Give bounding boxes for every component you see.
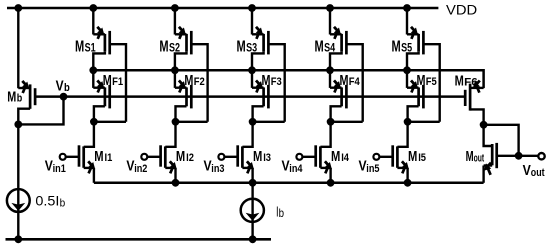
terminal circle Vin1 (60, 154, 66, 160)
dot diode-rail junction column 2 (171, 66, 179, 74)
svg-text:V: V (56, 78, 64, 95)
wire MS4 drain (330, 52, 342, 71)
transistor MS5 gate bar (422, 31, 425, 55)
svg-text:M: M (455, 73, 464, 90)
svg-text:b: b (279, 206, 285, 220)
wire MS1 gate lead to diode connection (110, 44, 126, 122)
dot diode-rail junction column 1 (89, 66, 97, 74)
wire MI4 source (320, 168, 330, 183)
transistor Mout source arrow (484, 163, 491, 175)
wire MI5 source (397, 168, 407, 183)
svg-text:M: M (392, 38, 401, 55)
transistor Mb channel bar (29, 84, 32, 108)
label Vb (56, 78, 70, 95)
transistor MI1 gate bar (78, 145, 81, 166)
transistor MI2 gate bar (159, 145, 162, 166)
svg-text:M: M (408, 148, 417, 165)
svg-text:I4: I4 (341, 152, 350, 164)
svg-text:M: M (103, 72, 112, 89)
wire Mout source (484, 166, 493, 183)
transistor MS3 source arrow (256, 27, 263, 39)
wire Mb source from VDD (18, 8, 29, 88)
transistor MI1 source arrow (88, 161, 95, 173)
transistor MS2 source arrow (179, 27, 186, 39)
transistor MF3 source arrow (256, 80, 263, 92)
wire MI1 gate lead (66, 156, 79, 158)
wire MI1 source (84, 168, 94, 183)
transistor MF5 gate bar (422, 85, 425, 109)
transistor MF5 channel bar (417, 87, 420, 106)
label MF4 (340, 72, 361, 89)
label MI5 (408, 148, 426, 165)
wire Ib to ground (251, 183, 253, 240)
label Vin3 (204, 157, 225, 175)
transistor MS4 channel bar (340, 34, 343, 52)
svg-text:V: V (523, 162, 531, 179)
transistor MS4 source arrow (334, 27, 341, 39)
svg-text:F5: F5 (426, 76, 437, 88)
terminal circle Vin2 (141, 154, 147, 160)
power rail VDD (7, 7, 438, 10)
label Mb (7, 89, 22, 106)
dot diode-rail junction column 5 (403, 66, 411, 74)
wire internal node to MS2 gate (176, 121, 208, 123)
dot VDD junction column 3 (248, 4, 256, 12)
transistor MF2 gate bar (190, 85, 193, 109)
svg-text:I1: I1 (105, 152, 113, 164)
transistor MF3 gate bar (267, 85, 270, 109)
node dot Vout (515, 152, 523, 160)
wire Mb drain (18, 109, 30, 125)
wire MF6 source from diode rail (470, 87, 484, 89)
common source rail of input pairs (94, 182, 484, 185)
svg-text:F4: F4 (349, 76, 361, 88)
label Vin2 (126, 157, 147, 175)
svg-text:M: M (159, 38, 168, 55)
wire internal node to MS5 gate (408, 121, 440, 123)
label MF5 (417, 72, 437, 89)
wire output node top link (484, 125, 519, 156)
svg-text:I5: I5 (418, 152, 426, 164)
transistor Mout gate bar (495, 143, 498, 168)
dot source-rail junction column 4 (327, 179, 335, 187)
label MI2 (176, 148, 194, 165)
dot source-rail junction column 3 (249, 179, 257, 187)
dot VDD junction column 1 (89, 4, 97, 12)
node dot internal node column 5 (404, 118, 412, 126)
svg-text:F1: F1 (112, 76, 123, 88)
terminal circle Vin4 (296, 154, 302, 160)
label 0.5Ib (35, 193, 65, 210)
svg-text:M: M (176, 148, 185, 165)
transistor MI5 gate bar (391, 145, 394, 166)
transistor MF6 channel bar (469, 84, 472, 111)
svg-text:M: M (331, 148, 340, 165)
transistor MF3 channel bar (262, 87, 265, 106)
transistor MI2 source arrow (170, 161, 177, 173)
wire MI4 gate lead (303, 156, 316, 158)
node dot output branch (480, 121, 488, 129)
dot diode-rail junction column 3 (248, 66, 256, 74)
wire MS4 gate lead to diode connection (346, 44, 362, 122)
dot ground-Ib junction (249, 235, 257, 243)
svg-text:b: b (64, 82, 70, 94)
svg-text:M: M (253, 148, 262, 165)
svg-text:M: M (340, 72, 349, 89)
transistor MS3 gate bar (267, 31, 270, 55)
svg-text:M: M (466, 148, 474, 165)
wire MF6 drain (470, 109, 484, 124)
svg-text:M: M (237, 38, 246, 55)
label MS2 (159, 38, 180, 55)
dot VDD junction column 5 (403, 4, 411, 12)
wire internal node to MS4 gate (331, 121, 363, 123)
svg-text:in1: in1 (53, 163, 66, 175)
node dot Mb drain / Vb / tail (14, 121, 22, 129)
wire MS5 drain (407, 52, 419, 71)
wire MF1 source (93, 70, 105, 88)
dot source-rail junction column 5 (404, 179, 412, 187)
label Vin1 (45, 157, 66, 175)
svg-text:b: b (60, 197, 66, 209)
transistor MI3 gate bar (236, 145, 239, 166)
current source Ib arrow (246, 213, 260, 221)
svg-text:M: M (94, 148, 103, 165)
label MF2 (184, 72, 204, 89)
svg-text:VDD: VDD (446, 2, 477, 18)
dot VDD-Mb junction (14, 4, 22, 12)
wire MF2 drain (176, 106, 187, 122)
svg-text:F6: F6 (464, 77, 478, 89)
transistor MF2 source arrow (179, 80, 186, 92)
wire MI2 gate lead (148, 156, 161, 158)
transistor MS4 gate bar (345, 31, 348, 55)
node dot internal node column 2 (172, 118, 180, 126)
node dot Vb (60, 93, 68, 101)
svg-text:I2: I2 (186, 152, 194, 164)
wire MS5 source from VDD (407, 8, 419, 35)
wire Mout gate lead (497, 155, 538, 157)
svg-text:I3: I3 (263, 152, 271, 164)
wire MI4 drain riser (320, 122, 330, 147)
wire MI1 drain riser (84, 122, 94, 147)
terminal circle Vout (538, 153, 544, 159)
wire internal node to MS1 gate (94, 121, 126, 123)
label MS4 (315, 38, 336, 55)
transistor MS5 source arrow (411, 27, 418, 39)
transistor MF1 gate bar (108, 85, 111, 109)
wire MS1 drain (93, 52, 105, 71)
terminal circle Vin5 (373, 154, 379, 160)
wire MI5 drain riser (397, 122, 407, 147)
wire MF1 drain (94, 106, 105, 122)
transistor MI5 source arrow (402, 161, 409, 173)
transistor MF5 source arrow (411, 80, 418, 92)
wire MF4 source (330, 70, 342, 88)
svg-text:M: M (315, 38, 324, 55)
label Vin4 (282, 157, 304, 175)
wire MS1 source from VDD (93, 8, 105, 35)
svg-text:0.5I: 0.5I (35, 193, 59, 209)
wire MF2 source (175, 70, 187, 88)
wire tail to current source (17, 124, 19, 239)
label MI1 (94, 148, 112, 165)
svg-text:F3: F3 (271, 76, 282, 88)
label Ib (276, 204, 284, 221)
wire MI3 gate lead (225, 156, 238, 158)
transistor MF2 channel bar (185, 87, 188, 106)
wire MI2 drain riser (165, 122, 175, 147)
label Vout (523, 162, 545, 179)
transistor MF1 channel bar (104, 87, 107, 106)
wire MI3 source (242, 168, 252, 183)
transistor Mout channel bar (491, 144, 494, 165)
wire MS2 gate lead to diode connection (191, 44, 207, 122)
svg-text:in5: in5 (366, 163, 379, 175)
svg-text:M: M (262, 72, 271, 89)
svg-text:out: out (474, 152, 485, 164)
bias rail Vb (gate line) (35, 95, 465, 98)
dot VDD junction column 2 (171, 4, 179, 12)
label MI4 (331, 148, 350, 165)
svg-text:in4: in4 (289, 163, 303, 175)
label MF1 (103, 72, 123, 89)
transistor MF4 gate bar (345, 85, 348, 109)
ground rail (6, 238, 272, 241)
wire MF3 drain (253, 106, 264, 122)
transistor Mb gate bar (34, 88, 37, 105)
label MS5 (392, 38, 413, 55)
node dot internal node column 4 (327, 118, 335, 126)
transistor MI4 source arrow (325, 161, 332, 173)
transistor MI1 channel bar (82, 146, 85, 167)
current source 0.5Ib arrow (11, 203, 25, 211)
svg-text:M: M (184, 72, 193, 89)
node dot internal node column 1 (90, 118, 98, 126)
svg-text:M: M (417, 72, 426, 89)
transistor MI4 gate bar (314, 145, 317, 166)
transistor MI5 channel bar (396, 146, 399, 167)
wire Vb node down-left (18, 97, 63, 125)
label MS1 (75, 38, 96, 55)
wire MI5 gate lead (380, 156, 393, 158)
label MI3 (253, 148, 271, 165)
wire MS3 source from VDD (252, 8, 264, 35)
wire MS3 gate lead to diode connection (268, 44, 284, 122)
wire MI2 source (165, 168, 175, 183)
transistor MI3 channel bar (241, 146, 244, 167)
transistor MF6 source arrow (473, 81, 480, 93)
transistor MI4 channel bar (319, 146, 322, 167)
svg-text:M: M (75, 38, 84, 55)
label Vin5 (359, 157, 380, 175)
current source 0.5Ib circle (7, 189, 30, 212)
transistor MS2 gate bar (190, 31, 193, 55)
transistor MS1 channel bar (104, 34, 107, 52)
svg-text:in3: in3 (211, 163, 224, 175)
transistor MS5 channel bar (417, 34, 420, 52)
transistor Mb source arrow (22, 81, 29, 93)
node dot internal node column 3 (249, 118, 257, 126)
diode rail (MS drain / MF source node) (93, 70, 483, 88)
dot ground-tail junction (14, 235, 22, 243)
label MF6 (455, 73, 478, 90)
label MF3 (262, 72, 282, 89)
dot source-rail junction column 2 (172, 179, 180, 187)
wire MS2 drain (175, 52, 187, 71)
wire MF5 drain (408, 106, 419, 122)
transistor MI2 channel bar (164, 146, 167, 167)
transistor MI3 source arrow (247, 161, 254, 173)
wire MS5 gate lead to diode connection (423, 44, 439, 122)
wire internal node to MS3 gate (253, 121, 285, 123)
current source Ib circle (241, 199, 264, 222)
wire MI3 drain riser (242, 122, 252, 147)
label VDD (446, 2, 477, 18)
wire MF5 source (407, 70, 419, 88)
svg-text:in2: in2 (134, 163, 147, 175)
wire MF4 drain (331, 106, 342, 122)
transistor MF4 channel bar (340, 87, 343, 106)
dot VDD junction column 4 (326, 4, 334, 12)
label MS3 (237, 38, 258, 55)
transistor MF4 source arrow (334, 80, 341, 92)
label Mout (466, 148, 485, 165)
wire MF3 source (252, 70, 264, 88)
svg-text:out: out (531, 167, 545, 179)
wire MS2 source from VDD (175, 8, 187, 35)
transistor MF6 gate bar (464, 90, 467, 106)
transistor MS2 channel bar (185, 34, 188, 52)
transistor MS1 gate bar (108, 31, 111, 55)
wire Mout drain (484, 125, 493, 146)
svg-text:M: M (7, 89, 16, 106)
wire MS4 source from VDD (330, 8, 342, 35)
wire MS3 drain (252, 52, 264, 71)
transistor MS3 channel bar (262, 34, 265, 52)
dot diode-rail junction column 4 (326, 66, 334, 74)
transistor MS1 source arrow (97, 27, 104, 39)
terminal circle Vin3 (218, 154, 224, 160)
svg-text:b: b (17, 93, 23, 105)
svg-text:F2: F2 (194, 76, 205, 88)
transistor MF1 source arrow (97, 80, 104, 92)
